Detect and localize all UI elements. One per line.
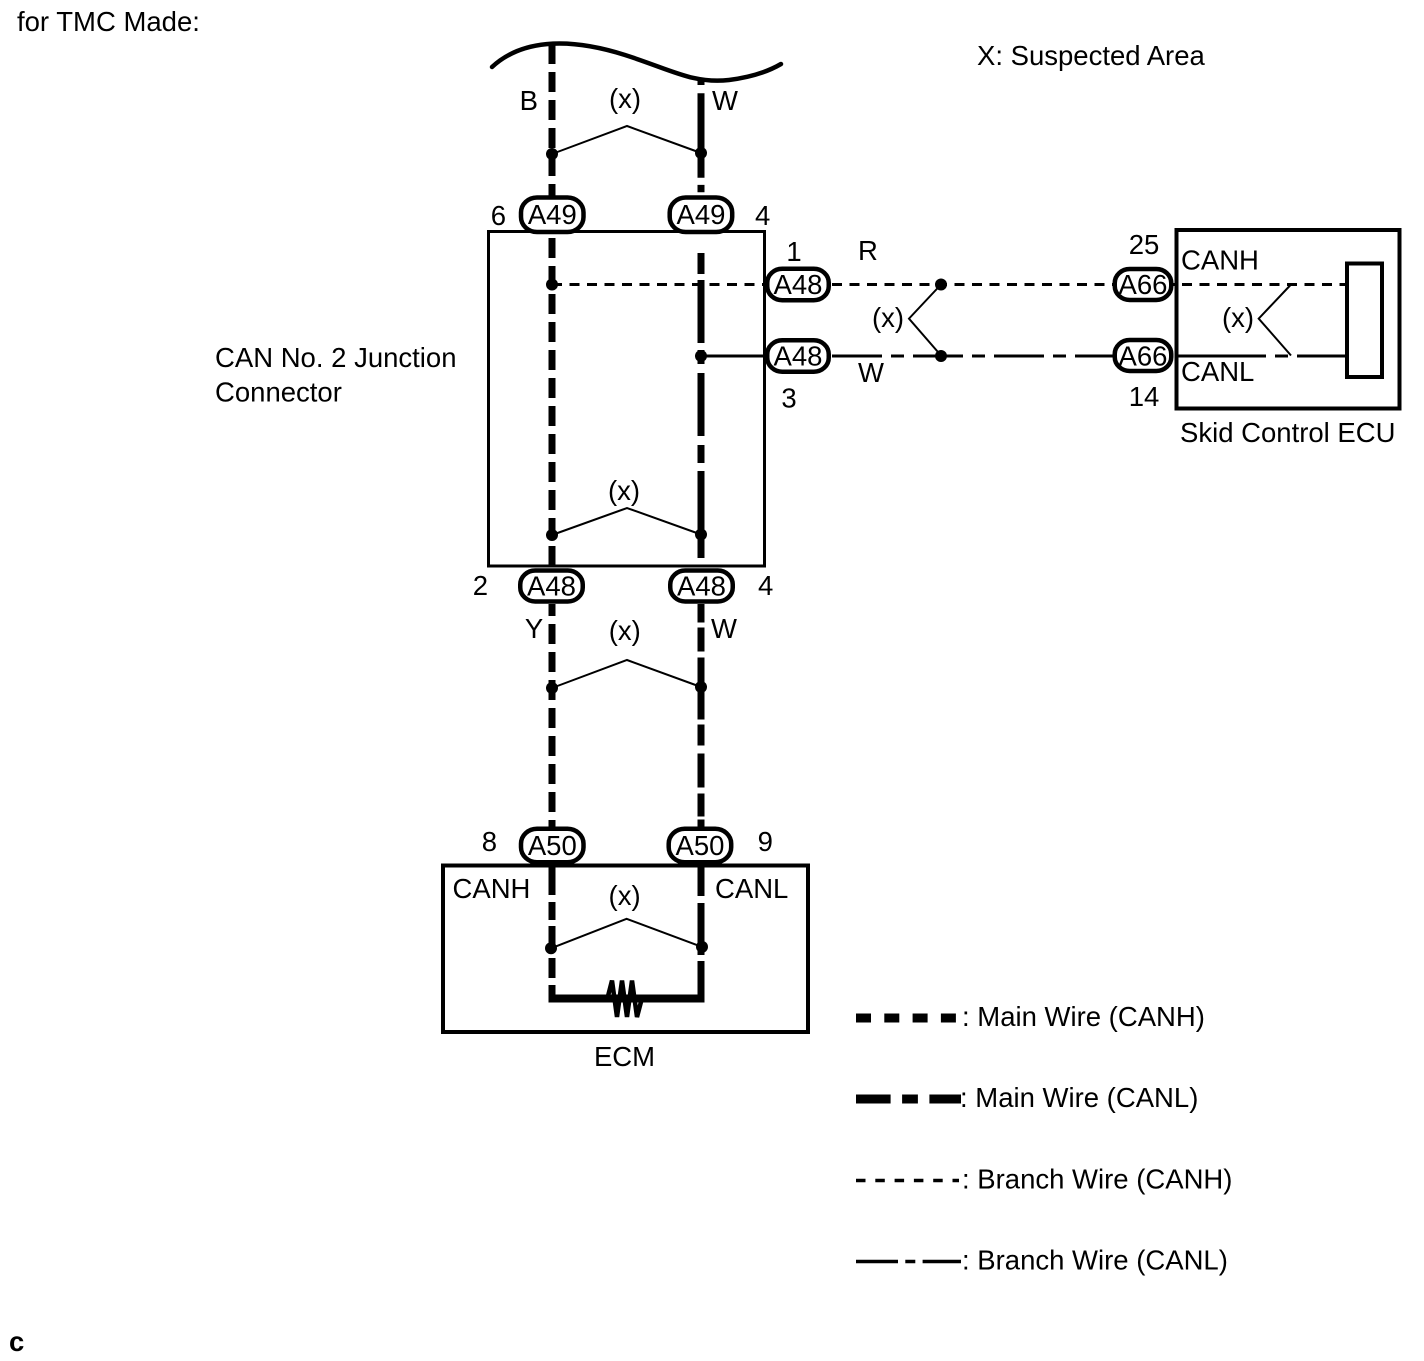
suspect pointer (x) top (552, 126, 701, 154)
branch wire CANL (horizontal dash-dot) (701, 355, 1120, 358)
svg-text:4: 4 (755, 200, 770, 231)
svg-text:(x): (x) (1222, 302, 1254, 333)
node CANL branch tap (695, 350, 707, 362)
svg-text:W: W (858, 357, 884, 388)
connector A66 pin 25 (1115, 269, 1172, 300)
wire CANL main inside box (698, 233, 705, 568)
svg-text:A50: A50 (676, 830, 725, 861)
ECM box (443, 866, 808, 1033)
junction box CAN No. 2 Junction Connector (489, 232, 765, 567)
svg-text:A66: A66 (1119, 269, 1168, 300)
svg-text:3: 3 (781, 383, 796, 414)
wire CANH main inside box (549, 233, 556, 568)
svg-text:(x): (x) (872, 302, 904, 333)
Skid Control ECU box (1177, 230, 1400, 409)
svg-text:A48: A48 (677, 571, 726, 602)
svg-text:A48: A48 (527, 571, 576, 602)
legend: Branch Wire (CANH) (856, 1179, 959, 1183)
legend: Main Wire (CANH) (856, 1014, 956, 1023)
svg-text:CANL: CANL (1181, 356, 1254, 387)
connector A66 pin 14 (1115, 340, 1172, 371)
wire CANH inside ECM (549, 863, 556, 1000)
branch wire CANH (horizontal dashed) (552, 283, 1347, 286)
svg-text:for TMC Made:: for TMC Made: (17, 6, 200, 37)
svg-text:Connector: Connector (215, 377, 342, 408)
svg-text:: Main Wire (CANH): : Main Wire (CANH) (962, 1001, 1205, 1032)
wire CANL inside ECM (698, 863, 705, 1000)
svg-text:B: B (520, 85, 538, 116)
svg-text:A49: A49 (677, 199, 726, 230)
wire B (CANH main, vertical) (549, 44, 556, 197)
node on CANL branch (935, 350, 947, 362)
svg-text:CANH: CANH (453, 873, 531, 904)
svg-text:A66: A66 (1119, 341, 1168, 372)
connector A49 pin 4 (670, 198, 733, 233)
ECU terminator block (1347, 264, 1382, 378)
svg-text:CAN No. 2 Junction: CAN No. 2 Junction (215, 342, 457, 373)
svg-text:X: Suspected Area: X: Suspected Area (977, 40, 1205, 71)
svg-text:: Branch Wire (CANL): : Branch Wire (CANL) (962, 1245, 1228, 1276)
svg-text:(x): (x) (609, 615, 641, 646)
legend: Main Wire (CANL) (856, 1095, 961, 1104)
node CANH branch tap (546, 279, 558, 291)
node on CANH branch (935, 279, 947, 291)
svg-text:1: 1 (786, 236, 801, 267)
svg-text:14: 14 (1129, 381, 1160, 412)
pointer lines mid lower (546, 682, 558, 694)
connector A48 pin 2 (520, 571, 583, 602)
connector A48 pin 1 (767, 269, 829, 301)
svg-text:A49: A49 (528, 199, 577, 230)
suspect pointer (x) mid branch (909, 285, 941, 356)
wire CANH main (A48-2 to A50-8) (549, 604, 556, 828)
terminating resistor wire (549, 995, 705, 1003)
svg-text:W: W (711, 613, 737, 644)
svg-text:8: 8 (482, 826, 497, 857)
svg-text:R: R (858, 235, 878, 266)
svg-text:6: 6 (491, 200, 506, 231)
svg-text:2: 2 (473, 570, 488, 601)
svg-text:A48: A48 (774, 269, 823, 300)
svg-text:Y: Y (525, 613, 543, 644)
connector A49 pin 6 (521, 198, 584, 233)
connector A50 pin 8 (521, 829, 584, 863)
connector A50 pin 9 (669, 829, 732, 863)
torn-wire wave (492, 44, 781, 81)
node on wire W (695, 147, 707, 159)
svg-text:(x): (x) (608, 475, 640, 506)
svg-text:(x): (x) (609, 83, 641, 114)
wire CANL main (A48-4 to A50-9) (698, 604, 705, 828)
svg-text:9: 9 (758, 826, 773, 857)
svg-text:c: c (9, 1326, 24, 1357)
svg-text:: Main Wire (CANL): : Main Wire (CANL) (960, 1082, 1198, 1113)
node on wire B (546, 148, 558, 160)
svg-text:ECM: ECM (594, 1041, 655, 1072)
svg-text:4: 4 (758, 570, 773, 601)
wire W (CANL main, vertical) (698, 80, 705, 197)
svg-text:CANH: CANH (1181, 245, 1259, 276)
svg-text:A50: A50 (528, 830, 577, 861)
legend: Branch Wire (CANL) (856, 1260, 961, 1264)
svg-text:25: 25 (1129, 229, 1160, 260)
svg-text:: Branch Wire (CANH): : Branch Wire (CANH) (962, 1164, 1232, 1195)
suspect pointer (x) inside box (546, 529, 558, 541)
connector A48 pin 4 (lower) (670, 571, 733, 602)
svg-text:Skid Control ECU: Skid Control ECU (1180, 417, 1396, 448)
svg-text:(x): (x) (609, 880, 641, 911)
resistor zigzag (608, 981, 643, 1018)
connector A48 pin 3 (767, 340, 829, 372)
svg-text:A48: A48 (774, 341, 823, 372)
svg-text:W: W (712, 85, 738, 116)
svg-text:CANL: CANL (715, 873, 788, 904)
suspect pointer (x) inside ECU (1259, 285, 1291, 356)
